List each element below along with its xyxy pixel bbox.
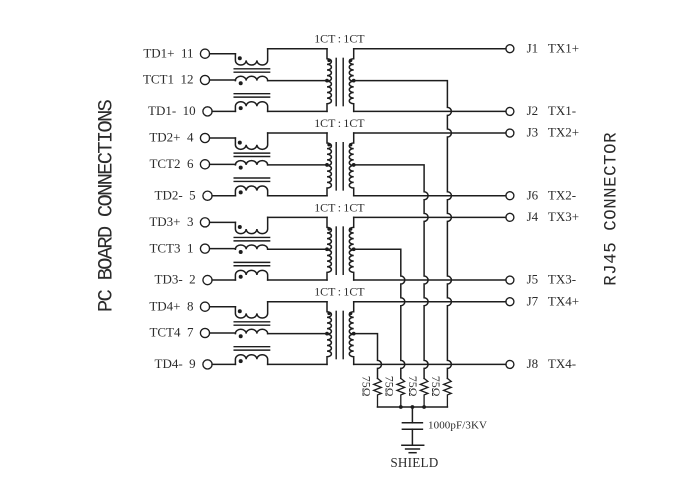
choke L3 core (upper pair) xyxy=(234,237,269,240)
svg-text:J6 TX2-: J6 TX2- xyxy=(527,187,576,202)
terminal TD3- (pin 2) xyxy=(203,275,212,284)
wire T3 secondary bottom to J5 xyxy=(354,279,506,281)
terminal TD4- (pin 9) xyxy=(203,360,212,369)
wire T4 centre tap to R1 (with crossover hops) xyxy=(354,334,382,379)
wire T3 secondary top to J4 xyxy=(354,216,506,218)
wire TD3+ to choke L3 xyxy=(210,221,236,223)
polarity dot choke L3 winding A xyxy=(238,225,242,229)
polarity dot T2 secondary xyxy=(349,143,352,146)
transformer T3 ratio label 1CT:1CT xyxy=(314,200,365,214)
wire TD4- to choke L4 xyxy=(212,363,235,365)
svg-text:J5 TX3-: J5 TX3- xyxy=(527,272,576,287)
terminal TCT4 (pin 7) xyxy=(200,328,209,337)
svg-text:TCT4 7: TCT4 7 xyxy=(149,325,194,340)
pin label TD2+ 4 xyxy=(149,130,194,145)
wire TD3- to choke L3 xyxy=(212,279,235,281)
wire T4 secondary bottom to J8 xyxy=(354,363,506,365)
wire T2 centre tap to R3 (with crossover hops) xyxy=(354,165,428,378)
polarity dot choke L3 winding B xyxy=(239,250,243,254)
polarity dot choke L4 winding B xyxy=(239,334,243,338)
pin label TD3- 2 xyxy=(155,272,196,287)
polarity dot choke L2 winding B xyxy=(239,166,243,170)
value label 75&#937; for R2 xyxy=(383,376,397,397)
polarity dot T3 secondary xyxy=(349,227,352,230)
polarity dot T4 secondary xyxy=(349,312,352,315)
polarity dot choke L2 winding C xyxy=(239,190,243,194)
polarity dot T1 primary xyxy=(327,59,330,62)
terminal J6 xyxy=(506,192,514,200)
wire T2 secondary top to J3 xyxy=(354,132,506,134)
wire capacitor C1 to shield ground xyxy=(411,429,413,445)
transformer T4 ratio label 1CT:1CT xyxy=(314,285,365,299)
wire TD1+ to choke L1 xyxy=(210,53,236,55)
pin label TCT1 12 xyxy=(143,72,194,87)
value label 1000pF/3KV xyxy=(428,420,487,432)
svg-text:J3 TX2+: J3 TX2+ xyxy=(527,125,579,140)
pin label TD4+ 8 xyxy=(149,298,193,313)
wire choke L4 C out to T4 primary bottom xyxy=(268,363,327,365)
svg-text:J7 TX4+: J7 TX4+ xyxy=(527,293,579,308)
wire T3 centre tap to R2 (with crossover hops) xyxy=(354,249,405,378)
choke L1 core (lower pair) xyxy=(234,94,269,97)
value label 75&#937; for R3 xyxy=(406,376,420,397)
transformer T1 secondary winding xyxy=(349,49,353,112)
polarity dot choke L1 winding A xyxy=(238,56,242,60)
transformer T4 secondary winding xyxy=(349,302,353,365)
pin label TD2- 5 xyxy=(155,187,196,202)
wire choke L1 A out to T1 primary top xyxy=(268,48,327,50)
pin label J1 TX1+ xyxy=(527,40,579,55)
terminal J1 xyxy=(506,45,514,53)
junction node T1 secondary centre tap xyxy=(352,79,356,83)
svg-text:TD4- 9: TD4- 9 xyxy=(155,356,196,371)
choke L4 core (lower pair) xyxy=(234,347,269,350)
transformer T4 primary winding xyxy=(327,302,331,365)
pin label J8 TX4- xyxy=(527,356,576,371)
wire TCT2 to choke L2 xyxy=(210,163,236,165)
wire choke L3 A out to T3 primary top xyxy=(268,216,327,218)
choke L3 core (lower pair) xyxy=(234,262,269,265)
choke L1 winding A (top) xyxy=(235,49,267,65)
left caption: PC BOARD CONNECTIONS xyxy=(96,99,119,312)
wire choke L3 C out to T3 primary bottom xyxy=(268,279,327,281)
terminal J8 xyxy=(506,360,514,368)
value label 75&#937; for R1 xyxy=(359,376,373,397)
choke L4 core (upper pair) xyxy=(234,322,269,325)
terminal TD2+ (pin 4) xyxy=(200,133,209,142)
transformer T4 core xyxy=(336,311,343,358)
svg-text:TD3+ 3: TD3+ 3 xyxy=(149,214,193,229)
pin label TD1- 10 xyxy=(148,103,196,118)
polarity dot choke L3 winding C xyxy=(239,275,243,279)
pin label J3 TX2+ xyxy=(527,125,579,140)
pin label TCT2 6 xyxy=(149,156,194,171)
svg-text:TD2- 5: TD2- 5 xyxy=(155,187,196,202)
choke L3 winding C (bottom) xyxy=(235,270,267,280)
junction node T4 secondary centre tap xyxy=(352,332,356,336)
transformer T3 secondary winding xyxy=(349,217,353,280)
svg-text:1000pF/3KV: 1000pF/3KV xyxy=(428,420,487,432)
svg-text:1CT : 1CT: 1CT : 1CT xyxy=(314,32,365,46)
label SHIELD xyxy=(390,455,438,470)
polarity dot T4 primary xyxy=(327,312,330,315)
junction node rail/C1 tap xyxy=(411,405,415,409)
wire choke L1 C out to T1 primary bottom xyxy=(268,110,327,112)
svg-text:75Ω: 75Ω xyxy=(359,376,373,397)
wire TCT4 to choke L4 xyxy=(210,332,236,334)
choke L2 winding C (bottom) xyxy=(235,186,267,196)
choke L2 winding B (middle) xyxy=(235,161,267,165)
wire T1 secondary top to J1 xyxy=(354,48,506,50)
polarity dot choke L2 winding A xyxy=(238,141,242,145)
pin label J6 TX2- xyxy=(527,187,576,202)
svg-text:1CT : 1CT: 1CT : 1CT xyxy=(314,116,365,130)
terminal TD3+ (pin 3) xyxy=(200,218,209,227)
terminal J7 xyxy=(506,298,514,306)
svg-text:75Ω: 75Ω xyxy=(406,376,420,397)
choke L2 core (upper pair) xyxy=(234,153,269,156)
wire choke L1 B out to T1 primary centre tap xyxy=(268,80,327,82)
junction node T4 primary centre tap xyxy=(325,332,329,336)
terminal TCT3 (pin 1) xyxy=(200,244,209,253)
terminal J2 xyxy=(506,107,514,115)
choke L4 winding A (top) xyxy=(235,302,267,318)
pin label J2 TX1- xyxy=(527,103,576,118)
wire choke L2 A out to T2 primary top xyxy=(268,132,327,134)
svg-text:75Ω: 75Ω xyxy=(383,376,397,397)
capacitor C1 1000pF/3KV xyxy=(402,423,422,429)
right caption: RJ45 CONNECTOR xyxy=(602,132,621,286)
svg-text:TD2+ 4: TD2+ 4 xyxy=(149,130,194,145)
terminal TD1- (pin 10) xyxy=(203,107,212,116)
pin label J5 TX3- xyxy=(527,272,576,287)
choke L2 winding A (top) xyxy=(235,133,267,149)
polarity dot choke L4 winding C xyxy=(239,359,243,363)
polarity dot choke L4 winding A xyxy=(238,309,242,313)
terminal J3 xyxy=(506,129,514,137)
choke L4 winding C (bottom) xyxy=(235,355,267,365)
wire T1 centre tap to R4 (with crossover hops) xyxy=(354,81,452,379)
wire rail to capacitor C1 xyxy=(411,407,413,423)
svg-text:1CT : 1CT: 1CT : 1CT xyxy=(314,285,365,299)
transformer T3 core xyxy=(336,227,343,274)
junction node T3 secondary centre tap xyxy=(352,247,356,251)
pin label TD1+ 11 xyxy=(143,45,193,60)
choke L2 core (lower pair) xyxy=(234,178,269,181)
junction node T3 primary centre tap xyxy=(325,247,329,251)
wire T1 secondary bottom to J2 xyxy=(354,110,506,112)
wire TD2- to choke L2 xyxy=(212,195,235,197)
wire choke L4 B out to T4 primary centre tap xyxy=(268,333,327,335)
choke L3 winding B (middle) xyxy=(235,245,267,249)
polarity dot T3 primary xyxy=(327,227,330,230)
svg-text:J1 TX1+: J1 TX1+ xyxy=(527,40,579,55)
choke L4 winding B (middle) xyxy=(235,329,267,333)
svg-text:RJ45 CONNECTOR: RJ45 CONNECTOR xyxy=(602,132,621,286)
transformer T3 primary winding xyxy=(327,217,331,280)
choke L3 winding A (top) xyxy=(235,217,267,233)
wire choke L2 B out to T2 primary centre tap xyxy=(268,164,327,166)
svg-text:J8 TX4-: J8 TX4- xyxy=(527,356,576,371)
pin label TD4- 9 xyxy=(155,356,196,371)
svg-text:1CT : 1CT: 1CT : 1CT xyxy=(314,200,365,214)
polarity dot T2 primary xyxy=(327,143,330,146)
svg-text:PC BOARD CONNECTIONS: PC BOARD CONNECTIONS xyxy=(96,99,119,312)
resistor R2 75&#937; xyxy=(397,378,405,407)
svg-text:TD4+ 8: TD4+ 8 xyxy=(149,298,193,313)
polarity dot choke L1 winding B xyxy=(239,81,243,85)
svg-text:TD3- 2: TD3- 2 xyxy=(155,272,196,287)
svg-text:TCT2 6: TCT2 6 xyxy=(149,156,194,171)
junction node T2 secondary centre tap xyxy=(352,163,356,167)
wire TCT3 to choke L3 xyxy=(210,248,236,250)
resistor R1 75&#937; xyxy=(374,378,382,407)
transformer T2 primary winding xyxy=(327,133,331,196)
terminal TD4+ (pin 8) xyxy=(200,302,209,311)
wire TD2+ to choke L2 xyxy=(210,137,236,139)
pin label TD3+ 3 xyxy=(149,214,193,229)
polarity dot choke L1 winding C xyxy=(239,106,243,110)
transformer T1 core xyxy=(336,58,343,105)
wire choke L3 B out to T3 primary centre tap xyxy=(268,248,327,250)
shield earth-ground symbol xyxy=(402,445,424,453)
choke L1 core (upper pair) xyxy=(234,69,269,72)
pin label TCT3 1 xyxy=(149,240,193,255)
svg-text:TCT1 12: TCT1 12 xyxy=(143,72,194,87)
choke L1 winding C (bottom) xyxy=(235,102,267,112)
svg-text:TD1- 10: TD1- 10 xyxy=(148,103,196,118)
terminal TD2- (pin 5) xyxy=(203,191,212,200)
terminal TCT2 (pin 6) xyxy=(200,160,209,169)
terminal TCT1 (pin 12) xyxy=(200,75,209,84)
wire T2 secondary bottom to J6 xyxy=(354,195,506,197)
polarity dot T1 secondary xyxy=(349,59,352,62)
transformer T2 secondary winding xyxy=(349,133,353,196)
transformer T2 ratio label 1CT:1CT xyxy=(314,116,365,130)
wire choke L4 A out to T4 primary top xyxy=(268,301,327,303)
junction node rail/R3 xyxy=(399,405,403,409)
wire TD4+ to choke L4 xyxy=(210,306,236,308)
value label 75&#937; for R4 xyxy=(429,376,443,397)
resistor R3 75&#937; xyxy=(420,378,428,407)
svg-text:75Ω: 75Ω xyxy=(429,376,443,397)
transformer T1 primary winding xyxy=(327,49,331,112)
wire T4 secondary top to J7 xyxy=(354,301,506,303)
pin label J7 TX4+ xyxy=(527,293,579,308)
terminal TD1+ (pin 11) xyxy=(200,49,209,58)
wire TCT1 to choke L1 xyxy=(210,79,236,81)
junction node rail/R2 xyxy=(422,405,426,409)
svg-text:J4 TX3+: J4 TX3+ xyxy=(527,209,579,224)
wire choke L2 C out to T2 primary bottom xyxy=(268,195,327,197)
svg-text:TCT3 1: TCT3 1 xyxy=(149,240,193,255)
junction node T2 primary centre tap xyxy=(325,163,329,167)
wire: resistor common rail xyxy=(378,406,448,408)
resistor R4 75&#937; xyxy=(444,378,452,407)
wire TD1- to choke L1 xyxy=(212,110,235,112)
terminal J4 xyxy=(506,213,514,221)
svg-text:SHIELD: SHIELD xyxy=(390,455,438,470)
transformer T2 core xyxy=(336,143,343,190)
svg-text:J2 TX1-: J2 TX1- xyxy=(527,103,576,118)
pin label TCT4 7 xyxy=(149,325,194,340)
choke L1 winding B (middle) xyxy=(235,76,267,80)
terminal J5 xyxy=(506,276,514,284)
junction node T1 primary centre tap xyxy=(325,79,329,83)
pin label J4 TX3+ xyxy=(527,209,579,224)
transformer T1 ratio label 1CT:1CT xyxy=(314,32,365,46)
svg-text:TD1+ 11: TD1+ 11 xyxy=(143,45,193,60)
